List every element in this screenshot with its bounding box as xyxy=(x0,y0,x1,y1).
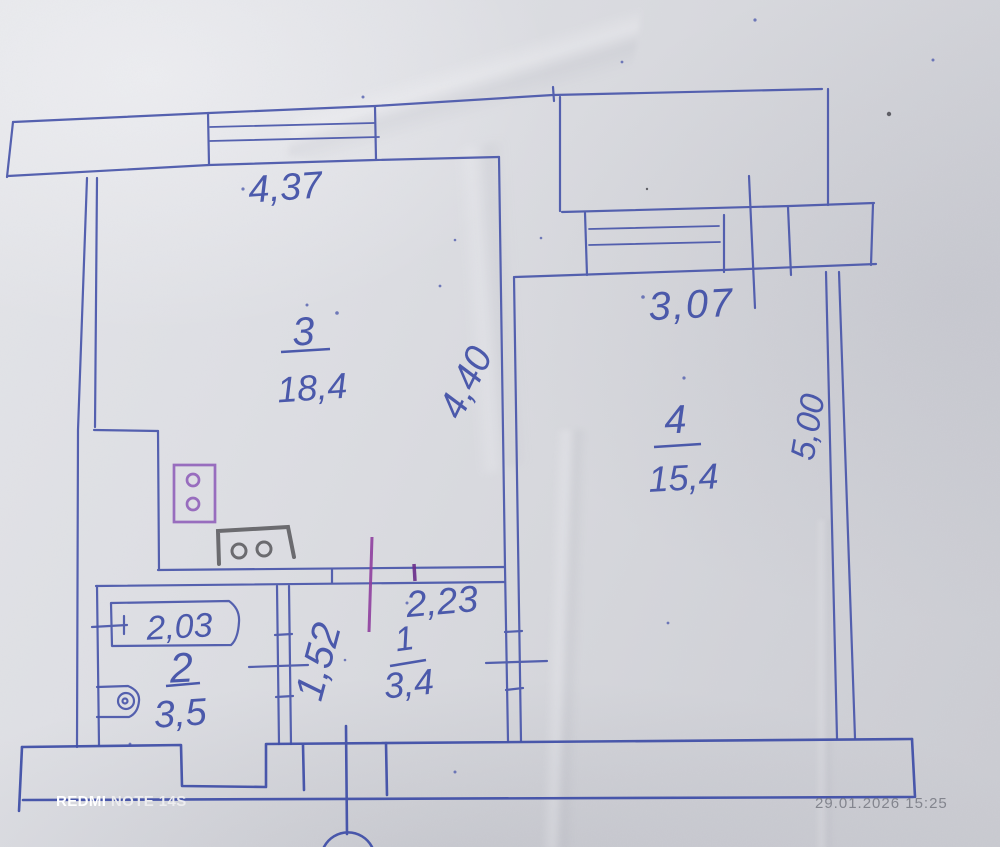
wall: outer left xyxy=(77,178,87,747)
wall: inner left upper xyxy=(95,178,97,427)
purple mark: corridor tick xyxy=(414,564,415,581)
bathroom wall tick upper xyxy=(275,634,292,635)
window W4 pane line 2 xyxy=(589,242,720,245)
wall: kitchen jog horizontal xyxy=(94,430,158,431)
wall: divider room3/room4 left line xyxy=(499,157,508,741)
wall: bottom band right end xyxy=(912,739,915,797)
divider tick lower xyxy=(506,688,523,690)
paper crease: diagonal top-centre xyxy=(288,0,643,202)
divider tick upper xyxy=(505,631,522,632)
paper crease: vertical lower middle xyxy=(505,430,615,847)
door jamb tick a xyxy=(303,745,304,790)
svg-text:15,4: 15,4 xyxy=(647,455,719,500)
sink unit (grey pencil) xyxy=(218,527,294,564)
pen speckles xyxy=(129,18,935,773)
purple mark: corridor vertical stroke xyxy=(369,537,372,632)
radiator box right edge xyxy=(871,204,873,265)
wall: bathroom double line 2 xyxy=(289,586,291,744)
paper crease: vertical right of centre bottom xyxy=(795,520,850,847)
svg-text:3: 3 xyxy=(291,309,316,354)
window W3 pane line 2 xyxy=(210,137,379,141)
wall: top outer boundary xyxy=(13,89,822,122)
dim line 1,52 xyxy=(249,665,308,667)
wall: corridor lower xyxy=(96,582,505,586)
svg-text:4,37: 4,37 xyxy=(247,164,326,211)
watermark: timestamp xyxy=(815,795,948,812)
bathroom wall tick lower xyxy=(276,696,293,697)
wall: top-right rect right xyxy=(827,89,829,205)
window W3 left jamb xyxy=(208,113,209,164)
wall: left balcony slant edge xyxy=(7,122,13,177)
vent stroke through W4 xyxy=(749,176,755,308)
wall: room3 top (balcony bottom) xyxy=(8,157,499,176)
wall: room2 left xyxy=(97,586,99,745)
svg-text:2,03: 2,03 xyxy=(144,606,213,647)
wall: room4 upper A xyxy=(562,203,874,212)
svg-text:4: 4 xyxy=(663,397,688,442)
door jamb tick b xyxy=(386,743,387,795)
dim tick 2,03 xyxy=(123,616,125,634)
wall: room4 right inner line xyxy=(839,272,855,738)
window W4 left jamb xyxy=(585,213,587,275)
svg-text:3,5: 3,5 xyxy=(152,691,208,737)
radiator box left edge xyxy=(788,207,791,275)
paper crease: through room3 right xyxy=(335,128,626,492)
wall: corridor upper xyxy=(158,567,505,570)
window W4 right jamb xyxy=(723,215,725,272)
window W3 pane line 1 xyxy=(210,123,374,127)
label: room 4 underline xyxy=(654,444,701,447)
label: hall underline xyxy=(390,660,426,666)
stove (purple) xyxy=(174,465,215,522)
wall: room4 right outer line xyxy=(826,272,837,738)
label: room 3 underline xyxy=(281,349,330,352)
wall: bottom band top line with door notch xyxy=(22,739,912,787)
svg-text:18,4: 18,4 xyxy=(276,365,349,411)
wall: bathroom double line 1 xyxy=(277,586,279,744)
svg-text:3,4: 3,4 xyxy=(382,661,436,707)
wall: bottom band left end xyxy=(19,747,22,811)
joint tick on top wall xyxy=(553,87,554,101)
toilet tank xyxy=(97,686,139,717)
wall: room4 upper B xyxy=(515,264,876,277)
dim line 2,03 xyxy=(92,625,127,627)
door axis line xyxy=(346,726,347,834)
watermark: phone brand xyxy=(56,793,187,810)
wall: kitchen jog vertical xyxy=(158,431,159,570)
wall: divider room4 right line xyxy=(514,277,521,741)
corridor tick a xyxy=(331,569,333,583)
door swing arc xyxy=(324,832,372,847)
toilet bowl circle xyxy=(118,693,134,709)
window W4 pane line 1 xyxy=(589,226,719,229)
divider dim line xyxy=(486,661,547,663)
label: room 2 underline xyxy=(166,683,200,686)
svg-text:2,23: 2,23 xyxy=(403,578,480,625)
svg-text:3,07: 3,07 xyxy=(647,281,735,329)
dim box 2,03 outline xyxy=(111,601,239,646)
toilet bowl inner dot xyxy=(123,699,128,704)
window W3 right jamb xyxy=(375,107,376,159)
wall: top-right rect left xyxy=(559,97,561,211)
wall: bottom band bottom line xyxy=(23,797,913,800)
